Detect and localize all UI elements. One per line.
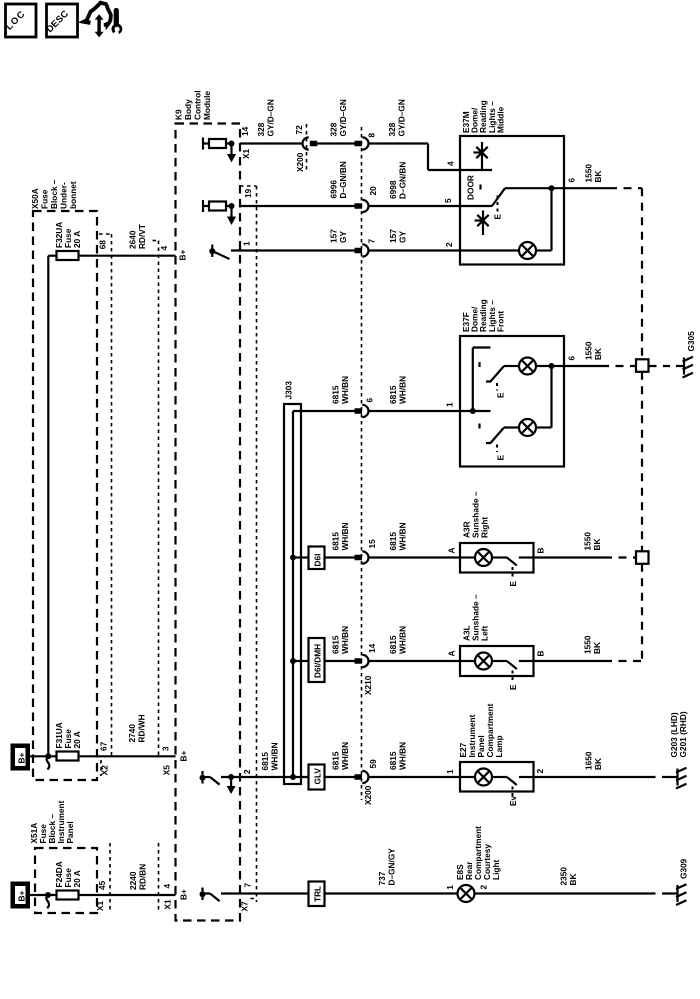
pin 1 of E8S: [445, 885, 455, 890]
lamp E8S: [458, 885, 475, 902]
wire 6815 WH/BN to A3R pin A: [368, 522, 460, 557]
svg-text:2350: 2350: [559, 867, 569, 886]
svg-text:GY: GY: [398, 231, 408, 243]
svg-text:1: 1: [242, 241, 252, 246]
pin 45 of X51A: [97, 880, 107, 890]
wire 6815 WH/BN J303 to D6I/DMH: [293, 660, 309, 662]
connector X200 label bottom: [363, 785, 373, 805]
svg-text:20 A: 20 A: [72, 870, 82, 887]
wire 328 GY/D-GN segment 3 to E37M pin 4: [368, 99, 460, 170]
connector X1 label: [241, 148, 251, 159]
svg-text:Body: Body: [183, 99, 193, 120]
node B+ feed of interior lamp switch: [178, 250, 188, 261]
in-line connector pin 6: [355, 398, 375, 418]
svg-text:2740: 2740: [127, 724, 137, 743]
svg-text:1550: 1550: [583, 635, 593, 654]
svg-text:5: 5: [443, 198, 453, 203]
wire 6815 WH/BN to connector X210: [325, 626, 355, 661]
dashed wire to ground G309: [648, 892, 671, 894]
pin B of A3R: [536, 548, 546, 554]
pin 67 of X2: [99, 741, 109, 751]
svg-text:X7: X7: [240, 901, 250, 912]
wire 6815 WH/BN to A3L pin A: [368, 626, 460, 661]
svg-text:X1: X1: [162, 899, 172, 910]
pin 4 of E37M: [446, 161, 456, 166]
lamp E8S Rear Compartment Courtesy Light label: [455, 826, 501, 880]
svg-text:6815: 6815: [388, 751, 398, 770]
svg-text:Control: Control: [193, 91, 203, 121]
mechanical link E A3R: [508, 567, 518, 587]
svg-text:Light: Light: [491, 859, 501, 880]
wire 6815 WH/BN J303 to D6I: [293, 556, 309, 558]
wire 1550 BK from A3L: [534, 635, 605, 661]
mechanical link E bottom: [496, 445, 506, 461]
svg-text:3: 3: [160, 746, 170, 751]
svg-text:GY/D–GN: GY/D–GN: [397, 99, 407, 136]
dashed wire to ground riser A3L: [604, 564, 642, 661]
dashed ground riser upper: [641, 372, 643, 552]
svg-text:15: 15: [367, 539, 377, 549]
door switch E37F top: [486, 366, 519, 382]
pin 5 of E37M: [443, 198, 453, 203]
svg-text:6815: 6815: [331, 532, 341, 551]
connector line X5: [153, 241, 159, 758]
fuse block X51A dashed box: [35, 848, 97, 913]
svg-text:2640: 2640: [128, 230, 138, 249]
wire 157 GY segment 1: [231, 229, 355, 251]
pin 2 of E27: [535, 769, 545, 774]
dashed wire to G305: [649, 365, 671, 367]
svg-text:BK: BK: [592, 642, 602, 654]
svg-text:D6I/DMH: D6I/DMH: [313, 644, 323, 678]
junction splice: [45, 753, 51, 769]
in-line connector pin 7: [355, 244, 369, 256]
switch TRL inside BCM: [200, 888, 220, 902]
wire 2640 RD/VT to BCM B+: [79, 224, 176, 256]
svg-text:6: 6: [365, 398, 375, 403]
svg-text:E: E: [508, 684, 518, 690]
driver output row2 inside BCM: [203, 200, 236, 225]
svg-text:157: 157: [329, 229, 339, 243]
svg-text:TRL: TRL: [313, 886, 323, 902]
wire 1550 BK from E37M pin 6: [552, 164, 610, 189]
wire 1550 BK from E37F pin 6: [552, 341, 604, 366]
svg-text:1: 1: [445, 769, 455, 774]
svg-text:7: 7: [367, 239, 377, 244]
connector GLV: [309, 765, 325, 790]
svg-text:WH/BN: WH/BN: [398, 742, 408, 770]
fuse block X51A label: [29, 800, 75, 843]
connector line X1 fuse block side: [109, 843, 111, 913]
connector line X1 BCM side: [158, 843, 160, 913]
node B+ at BCM pin 4: [178, 889, 188, 900]
svg-text:20: 20: [368, 186, 378, 196]
svg-text:B+: B+: [178, 751, 188, 762]
svg-text:RD/BN: RD/BN: [138, 864, 148, 890]
svg-text:59: 59: [368, 759, 378, 769]
svg-text:14: 14: [367, 643, 377, 653]
wire 6815 WH/BN to E27 pin 1: [368, 742, 460, 777]
connector X7 label: [240, 901, 250, 912]
fuse F24DA 20 A: [54, 861, 82, 899]
svg-text:Under-: Under-: [59, 182, 69, 209]
lamp unit E37M box: [460, 136, 564, 265]
switch E27: [507, 777, 534, 785]
wire 157 GY segment 2 to E37M pin 2: [368, 229, 460, 251]
module K9 dashed outline: [176, 124, 241, 921]
dashed ground wire down right side: [609, 188, 642, 359]
svg-text:6998: 6998: [388, 180, 398, 199]
svg-text:X200: X200: [295, 152, 305, 172]
pin 4 of BCM X1: [162, 884, 172, 889]
internal bus E37F: [460, 348, 491, 415]
pin 1 of E37F: [445, 402, 455, 407]
wire 2350 BK from E8S: [475, 867, 648, 894]
svg-text:Lamp: Lamp: [494, 735, 504, 757]
ground splice square A3R row: [636, 551, 649, 564]
svg-text:14: 14: [240, 126, 250, 136]
ground G203 LHD G201 RHD: [669, 711, 688, 788]
svg-text:G309: G309: [679, 858, 689, 879]
pin 2 of X7: [242, 769, 252, 774]
wire 6996 D-GN/BN segment 1: [240, 161, 355, 206]
pin 1 of X1: [242, 241, 252, 246]
connector X2 label: [100, 765, 110, 776]
switch A3R: [507, 558, 534, 566]
svg-text:B+: B+: [178, 250, 188, 261]
driver sink arrow GLV: [227, 774, 236, 794]
fuse block X50A label: [30, 179, 78, 209]
module K9 Body Control Module label: [174, 91, 213, 121]
connector X1 label right: [162, 899, 172, 910]
wire riser to fuse F32UA: [48, 256, 56, 757]
splice pack internal bus: [290, 411, 296, 780]
svg-text:X210: X210: [363, 675, 373, 695]
reading lamp symbol bottom E37M: [475, 211, 489, 236]
svg-text:Block –: Block –: [49, 179, 59, 209]
pin 19 of X1: [243, 188, 253, 198]
connector X210 label: [363, 675, 373, 695]
svg-text:BK: BK: [593, 171, 603, 183]
svg-text:6815: 6815: [331, 385, 341, 404]
pin 2 of E37M: [444, 242, 454, 247]
wire B+ to fuse F24DA: [30, 892, 57, 908]
reading lamp symbol top E37M: [474, 142, 488, 170]
svg-text:B+: B+: [178, 889, 188, 900]
mechanical link E: [493, 196, 503, 220]
pin 3 of X5: [160, 746, 170, 751]
connector TRL: [309, 882, 325, 907]
connector X200 label: [295, 152, 305, 172]
ground splice square E37F row: [636, 359, 649, 372]
mechanical link E top: [496, 383, 506, 398]
wire 328 GY/D-GN segment 2: [317, 99, 354, 143]
svg-text:1550: 1550: [584, 341, 594, 360]
svg-text:WH/BN: WH/BN: [398, 376, 408, 404]
dashed wire to ground G203 G201: [648, 776, 671, 778]
svg-text:6815: 6815: [388, 532, 398, 551]
svg-text:20 A: 20 A: [72, 231, 82, 248]
svg-text:6996: 6996: [329, 180, 339, 199]
svg-text:D6I: D6I: [313, 554, 323, 567]
svg-text:RD/WH: RD/WH: [137, 714, 147, 742]
pin 2 of E8S: [479, 885, 489, 890]
fuse block X50A dashed box: [33, 211, 97, 780]
svg-text:328: 328: [256, 122, 266, 136]
pin 7 of X7: [243, 883, 253, 888]
svg-text:19: 19: [243, 188, 253, 198]
wire B+ to fuse F31UA: [30, 755, 57, 757]
svg-text:WH/BN: WH/BN: [340, 522, 350, 550]
svg-text:72: 72: [294, 125, 304, 135]
connector D6I: [309, 547, 325, 570]
svg-text:B+: B+: [16, 752, 26, 763]
B+ source box 2: [11, 882, 31, 909]
svg-text:E: E: [496, 455, 506, 461]
switch throw mark E37F top: [478, 362, 480, 367]
svg-text:Fuse: Fuse: [40, 189, 50, 209]
svg-text:WH/BN: WH/BN: [340, 376, 350, 404]
node B+ at BCM pin 3: [178, 751, 188, 762]
door switch E37F bottom: [486, 428, 519, 444]
svg-text:6: 6: [567, 356, 577, 361]
ground G305: [676, 331, 696, 378]
svg-text:A: A: [447, 651, 457, 657]
svg-text:GLV: GLV: [313, 768, 323, 785]
svg-text:1550: 1550: [583, 532, 593, 551]
fuse F31UA 20 A: [54, 722, 82, 760]
svg-text:6815: 6815: [388, 635, 398, 654]
wire 2240 RD/BN to BCM pin 4 X1: [79, 864, 176, 895]
svg-text:WH/BN: WH/BN: [398, 626, 408, 654]
svg-text:6815: 6815: [388, 385, 398, 404]
svg-text:1650: 1650: [584, 751, 594, 770]
svg-text:bonnet: bonnet: [68, 181, 78, 209]
svg-text:WH/BN: WH/BN: [270, 742, 280, 770]
switch throw mark E37M: [479, 185, 481, 190]
dashed wire to ground splice: [601, 365, 636, 367]
component connector face line: [361, 127, 363, 800]
pin 7: [367, 239, 377, 244]
svg-text:6: 6: [567, 178, 577, 183]
svg-text:Left: Left: [480, 626, 490, 641]
svg-text:DOOR: DOOR: [466, 175, 476, 200]
svg-text:B+: B+: [16, 890, 26, 901]
wire 1650 BK from E27: [534, 751, 648, 777]
wire 6998 D-GN/BN segment 2 to E37M pin 5: [368, 162, 460, 206]
svg-text:6815: 6815: [331, 751, 341, 770]
svg-text:2: 2: [444, 242, 454, 247]
connector X200 line: [306, 124, 308, 170]
svg-text:GY/D–GN: GY/D–GN: [266, 99, 276, 136]
lamp unit A3L box: [460, 646, 534, 676]
svg-text:20 A: 20 A: [72, 731, 82, 748]
label DOOR: [466, 175, 476, 200]
fuse F32UA 20 A: [54, 222, 82, 260]
wire 1550 BK from A3R: [534, 532, 605, 558]
svg-text:BK: BK: [593, 348, 603, 360]
svg-text:1: 1: [445, 885, 455, 890]
svg-text:2: 2: [242, 769, 252, 774]
pin 4 of X5: [159, 246, 169, 251]
svg-text:D–GN/BN: D–GN/BN: [398, 162, 408, 199]
lamp unit A3L Sunshade - Left label: [462, 594, 490, 641]
svg-text:BK: BK: [592, 539, 602, 551]
svg-text:Front: Front: [495, 311, 505, 332]
svg-text:7: 7: [243, 883, 253, 888]
switch A3L: [507, 661, 534, 669]
lamp unit A3R box: [460, 543, 534, 573]
svg-text:B: B: [536, 548, 546, 554]
svg-text:328: 328: [387, 122, 397, 136]
svg-text:D–GN/BN: D–GN/BN: [338, 161, 348, 198]
svg-text:WH/BN: WH/BN: [340, 742, 350, 770]
connector X1 label left: [95, 900, 105, 911]
pin A of A3L: [447, 651, 457, 657]
lamp E37M: [460, 188, 552, 259]
wire 6815 WH/BN to connector: [325, 522, 355, 557]
svg-text:157: 157: [388, 229, 398, 243]
lamp A3R: [460, 549, 507, 566]
driver output row1 inside BCM: [203, 138, 236, 163]
svg-text:4: 4: [446, 161, 456, 166]
BCM connector face line X1-X7: [240, 186, 257, 902]
in-line connector pin 8: [355, 137, 369, 149]
svg-text:G305: G305: [686, 331, 696, 352]
svg-text:Module: Module: [202, 91, 212, 120]
svg-text:GY/D–GN: GY/D–GN: [338, 99, 348, 136]
svg-text:RD/VT: RD/VT: [137, 224, 147, 249]
svg-text:WH/BN: WH/BN: [340, 626, 350, 654]
connector D6I/DMH: [309, 638, 325, 682]
svg-text:K9: K9: [174, 109, 184, 120]
in-line connector X200 pin 72: [303, 137, 318, 149]
svg-text:J303: J303: [284, 381, 294, 400]
svg-text:X1: X1: [95, 900, 105, 911]
svg-text:1: 1: [445, 402, 455, 407]
svg-text:68: 68: [97, 240, 107, 250]
switch throw mark E37F bottom: [478, 424, 480, 429]
svg-text:Ev: Ev: [508, 795, 518, 806]
lamp unit E37M Dome/Reading Lights - Middle label: [461, 100, 505, 133]
pin 14 of X1: [240, 126, 250, 136]
svg-text:Right: Right: [480, 517, 490, 538]
lamp unit E37F Dome/Reading Lights - Front label: [461, 299, 505, 332]
switch GLV inside BCM: [200, 771, 220, 785]
svg-text:X200: X200: [363, 785, 373, 805]
lamp unit E27 Instrument Panel Compartment Lamp label: [458, 703, 504, 757]
dashed wire to ground splice A3R: [604, 556, 636, 558]
B+ source box 1: [11, 744, 31, 771]
wire 328 GY/D-GN segment 1: [240, 99, 303, 143]
ground G309: [670, 858, 689, 905]
svg-text:2: 2: [479, 885, 489, 890]
pin A of A3R: [447, 548, 457, 554]
svg-text:X2: X2: [100, 765, 110, 776]
lamp unit A3R Sunshade - Right label: [462, 491, 490, 538]
lamp E37F top: [519, 358, 555, 375]
wire 737 D-GN/GY BCM to TRL: [221, 892, 309, 894]
svg-text:E: E: [496, 392, 506, 398]
svg-text:E: E: [508, 581, 518, 587]
connector line X2: [99, 234, 112, 776]
pin 4 stub inside E37M: [460, 169, 492, 171]
lamp unit E37F box: [460, 336, 564, 467]
svg-text:67: 67: [99, 741, 109, 751]
pin 68 of X2: [97, 240, 107, 250]
svg-text:G201 (RHD): G201 (RHD): [678, 711, 688, 757]
pin 1 of E27: [445, 769, 455, 774]
connector X5 label: [162, 765, 172, 776]
wire 6815 WH/BN GLV to connector X200: [325, 742, 355, 777]
svg-text:8: 8: [367, 133, 377, 138]
svg-text:2240: 2240: [128, 871, 138, 890]
mechanical link Ev E27: [508, 787, 518, 807]
svg-text:Middle: Middle: [495, 106, 505, 133]
svg-text:6815: 6815: [331, 635, 341, 654]
svg-text:4: 4: [162, 884, 172, 889]
svg-text:D–GN/GY: D–GN/GY: [387, 848, 397, 886]
pin B of A3L: [536, 651, 546, 657]
svg-text:X1: X1: [241, 148, 251, 159]
svg-text:GY: GY: [338, 231, 348, 243]
pin 72 of X200: [294, 125, 304, 135]
lamp E37F bottom: [519, 366, 552, 436]
switch to B+ row3 inside BCM: [209, 245, 229, 260]
svg-text:A: A: [447, 548, 457, 554]
svg-text:BK: BK: [593, 758, 603, 770]
lamp unit E27 box: [460, 762, 534, 792]
svg-text:328: 328: [329, 122, 339, 136]
LOC legend box: [3, 4, 36, 37]
lamp E27: [460, 769, 507, 786]
mechanical link E A3L: [508, 671, 518, 691]
svg-text:B: B: [536, 651, 546, 657]
door switch E37M: [460, 185, 555, 206]
svg-text:Panel: Panel: [65, 821, 75, 843]
svg-text:2: 2: [535, 769, 545, 774]
svg-text:45: 45: [97, 880, 107, 890]
svg-text:X50A: X50A: [30, 188, 40, 209]
pin 8: [367, 133, 377, 138]
wire 6815 WH/BN BCM to J303: [221, 742, 309, 777]
svg-text:737: 737: [377, 871, 387, 885]
svg-text:1550: 1550: [584, 164, 594, 183]
vehicle navigation icon with arrow and wrench: [84, 3, 122, 38]
svg-text:6815: 6815: [260, 752, 270, 771]
wire 6815 WH/BN J303 to E37F pin 1: [293, 376, 460, 411]
svg-text:X5: X5: [162, 765, 172, 776]
in-line connector pin 15 X210: [355, 539, 378, 564]
lamp A3L: [460, 653, 507, 670]
svg-text:E: E: [493, 214, 503, 220]
in-line connector pin 14 X210: [355, 643, 378, 667]
svg-text:BK: BK: [568, 874, 578, 886]
wire 737 D-GN/GY to E8S pin 1: [325, 848, 458, 894]
DESC legend box: [44, 4, 78, 37]
splice pack J303: [284, 381, 302, 784]
pin 20: [368, 186, 378, 196]
wire 2740 RD/WH to BCM pin 3 X5: [79, 714, 176, 756]
svg-text:4: 4: [159, 246, 169, 251]
in-line connector pin 59 X200: [355, 759, 379, 783]
in-line connector pin 20: [355, 200, 369, 212]
svg-text:WH/BN: WH/BN: [398, 522, 408, 550]
